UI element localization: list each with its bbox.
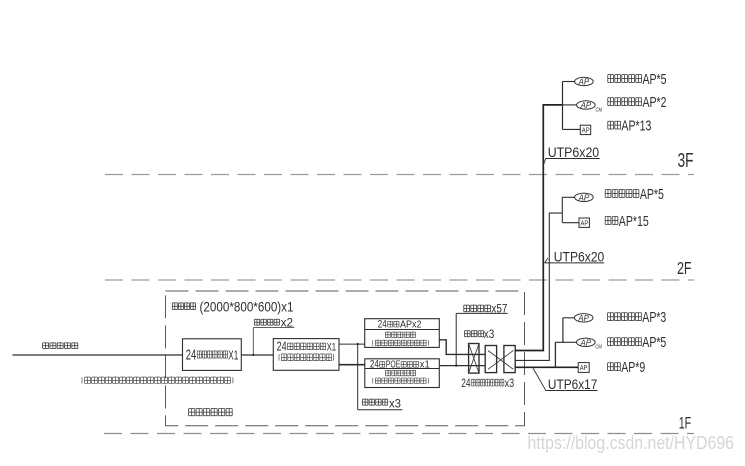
svg-text:AP: AP <box>581 218 589 227</box>
AP square 1F indoor <box>578 363 589 373</box>
svg-text:x1: x1 <box>420 360 430 371</box>
label box3 body1 无线控制器 <box>385 332 415 338</box>
svg-text:x2: x2 <box>281 318 294 330</box>
svg-text:POE: POE <box>386 360 401 371</box>
svg-text:2F: 2F <box>677 258 692 278</box>
box aggregation switch 24口汇聚交换机X1 <box>273 339 339 371</box>
label label 普通放装型 2F <box>605 190 639 198</box>
svg-text:X1: X1 <box>228 347 238 362</box>
label label panels cjk <box>471 379 504 386</box>
label box3 body2 <box>373 340 429 346</box>
svg-text:AP: AP <box>580 101 592 110</box>
svg-text:CM: CM <box>595 345 602 351</box>
svg-text:AP*3: AP*3 <box>642 309 666 326</box>
wire panel to 3F riser <box>515 105 562 351</box>
floor line 1F <box>104 433 694 435</box>
wire 1F mid branch <box>555 341 576 343</box>
wire 3F branch vertical <box>562 82 564 130</box>
svg-text:24: 24 <box>461 376 470 390</box>
wire 2F bottom branch <box>562 222 579 224</box>
svg-text:AP*2: AP*2 <box>643 94 667 111</box>
svg-text:UTP6x17: UTP6x17 <box>548 377 598 392</box>
label box4 body1 无线控制器 <box>386 370 416 376</box>
label box4 body2 <box>373 378 429 384</box>
svg-text:x3: x3 <box>389 398 401 410</box>
junction riser to 光纤跳线x3 label <box>357 344 359 410</box>
label label 普通放装型 1F <box>608 313 642 321</box>
label box1 cjk <box>197 351 227 358</box>
wire 1F top branch <box>563 317 575 319</box>
wire box3 to panels (jog) <box>439 340 485 355</box>
AP oval 2F normal <box>575 193 594 201</box>
AP oval 1F high-density CM <box>577 338 596 346</box>
junction dot at fiber x2 leader on wire <box>252 354 254 356</box>
label label 光纤跳线x3 <box>363 399 388 405</box>
wire 2F top branch <box>562 196 574 198</box>
box core switch 24口主APx2 / 无线控制器 <box>365 319 440 348</box>
svg-text:AP: AP <box>582 126 590 135</box>
wire 1F branch vertical <box>562 318 564 343</box>
cable organizer box A <box>469 344 479 374</box>
leader 光纤跳线x2 <box>252 328 254 355</box>
label label 六类跳线x57 <box>464 305 491 312</box>
svg-text:AP*15: AP*15 <box>619 213 649 230</box>
wire 3F top branch <box>563 81 575 83</box>
label label 首层弱电机房 <box>189 409 233 416</box>
leader 六类跳线x57 <box>455 313 457 365</box>
AP square 2F indoor <box>579 218 589 227</box>
patch panel box C <box>504 346 515 373</box>
label note (fiber frame not in scope) <box>82 377 233 383</box>
svg-text:(2000*800*600)x1: (2000*800*600)x1 <box>200 300 294 315</box>
label label 室分 2F <box>605 217 618 225</box>
svg-text:AP: AP <box>577 314 589 323</box>
cabinet dashed enclosure <box>166 291 525 426</box>
svg-text:3F: 3F <box>678 149 694 172</box>
wire 1F T vertical <box>554 342 556 367</box>
label label 高密放装型 1F <box>608 338 642 346</box>
AP oval 3F high-density CM <box>577 101 596 109</box>
junction dot at box4 wire / cat6 leader <box>455 364 457 366</box>
svg-text:AP: AP <box>580 363 588 372</box>
svg-text:24: 24 <box>277 340 287 354</box>
junction dot at box2-box3 wire tap <box>357 343 359 345</box>
svg-text:AP*13: AP*13 <box>621 118 651 135</box>
wire box4 to panels <box>439 365 485 367</box>
svg-text:CM: CM <box>596 107 603 113</box>
label box3 cjk h <box>388 321 399 327</box>
floor line 2F <box>105 279 694 281</box>
svg-text:UTP6x20: UTP6x20 <box>554 249 605 264</box>
AP oval 3F normal <box>575 77 594 85</box>
label box2 cjk1 <box>288 343 326 350</box>
label label 室分 3F <box>608 121 621 129</box>
wire box2 to box3 <box>339 343 365 345</box>
label box4 cjk h1 <box>380 362 385 368</box>
label label 室分 1F <box>608 363 621 371</box>
floor line 3F <box>105 174 694 176</box>
svg-text:APx2: APx2 <box>400 319 422 331</box>
svg-text:x3: x3 <box>505 378 514 390</box>
label box2 cjk2 <box>279 354 334 361</box>
patch panel box B <box>485 346 496 373</box>
wire panel to 2F riser <box>515 213 562 360</box>
svg-text:X1: X1 <box>327 342 337 354</box>
AP oval 1F normal <box>574 314 593 322</box>
svg-text:AP: AP <box>578 193 590 202</box>
AP square 3F indoor <box>580 125 590 134</box>
svg-text:UTP6x20: UTP6x20 <box>548 145 600 160</box>
label box4 cjk h2 <box>401 362 419 368</box>
svg-text:24: 24 <box>378 319 387 331</box>
svg-text:x3: x3 <box>484 329 495 341</box>
svg-text:AP*5: AP*5 <box>642 334 666 351</box>
svg-text:https://blog.csdn.net/HYD696: https://blog.csdn.net/HYD696 <box>528 432 735 453</box>
svg-text:AP*5: AP*5 <box>643 71 667 88</box>
wire 3F bottom branch <box>563 128 581 130</box>
svg-text:AP: AP <box>578 78 590 87</box>
svg-text:AP: AP <box>580 338 592 347</box>
label label 光纤跳线x2 <box>254 319 279 325</box>
label label 普通放装型 3F <box>608 75 642 83</box>
wire 2F branch vertical <box>561 197 563 222</box>
label label 校园网光纤 <box>43 343 78 349</box>
svg-text:24: 24 <box>370 359 379 371</box>
box POE switch 24口POE交换机x1 / 无线控制器 <box>365 359 440 388</box>
wire 3F riser to CM oval <box>563 104 577 106</box>
svg-text:AP*9: AP*9 <box>621 359 645 376</box>
label cabinet title 网络机柜 <box>172 303 195 310</box>
bowtie X diag1 <box>488 351 513 370</box>
wire panel to 1F (thick) <box>515 366 578 368</box>
label label 理线器x3 <box>465 331 484 337</box>
svg-text:1F: 1F <box>679 414 692 433</box>
svg-text:24: 24 <box>186 347 197 363</box>
box fiber patch panel 24口光纤配线架X1 <box>183 339 242 371</box>
svg-text:AP*5: AP*5 <box>640 186 664 203</box>
label label 高密放装型 3F <box>608 98 642 106</box>
wire campus fiber <box>13 354 183 356</box>
wire box1 to box2 <box>241 354 273 356</box>
wire box2 to box4 <box>339 364 365 366</box>
